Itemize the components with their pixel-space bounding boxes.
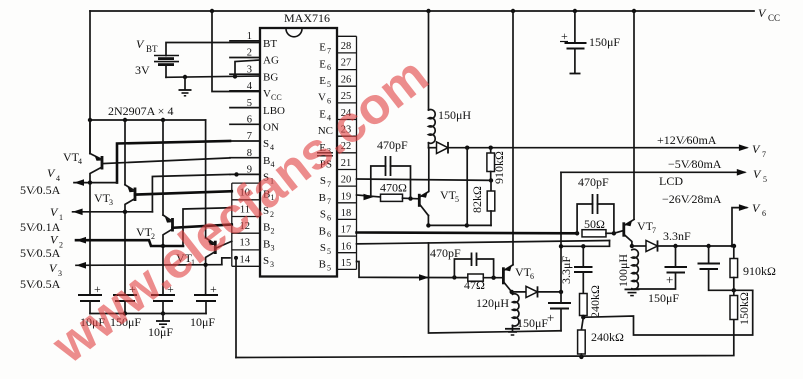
wire top Vcc rail [90,10,754,12]
svg-text:2: 2 [271,227,275,236]
svg-text:−5V∕80mA: −5V∕80mA [668,157,722,171]
node V5 label [668,157,767,184]
capacitor C12 150uF [517,292,571,331]
svg-text:S: S [263,138,269,150]
svg-text:5: 5 [327,247,331,256]
IC left pin stubs 1-9 [230,41,260,175]
resistor R6 150k [730,290,751,325]
svg-text:BT: BT [146,44,158,54]
svg-text:3: 3 [247,64,252,75]
svg-text:910kΩ: 910kΩ [743,264,776,278]
svg-text:6: 6 [762,209,766,218]
diode D3 [512,286,564,297]
svg-text:V: V [318,92,326,104]
svg-text:5V∕0.5A: 5V∕0.5A [20,246,61,260]
ground L2 [625,289,640,295]
capacitor C9 3.3nF [698,246,753,292]
svg-text:470pF: 470pF [430,246,461,260]
inductor L3 120uH [476,294,519,332]
svg-text:470Ω: 470Ω [380,181,407,195]
svg-text:47Ω: 47Ω [464,278,485,292]
svg-text:B: B [319,192,326,204]
svg-text:7: 7 [327,47,331,56]
pin names left inside [263,38,285,269]
svg-text:16: 16 [341,241,352,252]
wire S7 pin20 to 910k/82k node [357,178,494,182]
wire B4 pin8 to VT4 base [102,158,230,164]
capacitor C5 150uF top [560,9,620,74]
svg-text:7: 7 [327,180,331,189]
svg-text:S: S [320,242,326,254]
svg-text:19: 19 [341,191,352,202]
battery VBT 3V [135,37,260,77]
svg-text:14: 14 [240,254,251,265]
svg-text:26: 26 [341,74,352,85]
wire bottom rail [236,320,734,360]
svg-text:−26V∕28mA: −26V∕28mA [662,192,722,206]
pin numbers left [240,31,253,265]
svg-text:B: B [319,259,326,271]
svg-text:150μF: 150μF [517,316,548,330]
svg-text:ON: ON [263,122,279,134]
transistor VT5 [419,148,459,216]
capacitor C3 10uF [148,282,175,339]
svg-text:5: 5 [247,98,252,109]
svg-text:3: 3 [270,260,274,269]
svg-text:MAX716: MAX716 [284,11,330,25]
resistor R1 910k [487,148,506,184]
resistor R4 50ohm [582,217,623,237]
wire AG pin2 jog [235,60,260,76]
resistor R2 82k [470,180,495,225]
wire S1 pin9 [152,172,238,212]
svg-text:7: 7 [247,131,252,142]
svg-text:5V∕0.5A: 5V∕0.5A [20,277,61,291]
wire left rail [89,11,91,154]
capacitor C7 470pF bridge [577,175,614,233]
svg-text:V: V [263,88,271,100]
inductor L2 100uH [616,249,638,289]
svg-text:5: 5 [327,264,331,273]
svg-text:3V: 3V [135,63,150,77]
wire S3 pin14 to V3 row [222,258,230,265]
wire B7 pin19 with arrow [357,194,381,201]
pin numbers right [341,41,352,269]
wire -5V vertical [560,172,562,292]
svg-text:8: 8 [247,148,252,159]
capacitor C6 470pF bridge [371,138,411,199]
wire S2 pin11 [183,208,230,246]
svg-text:82kΩ: 82kΩ [470,186,484,213]
svg-text:3.3μF: 3.3μF [559,256,573,284]
svg-text:470pF: 470pF [377,138,408,152]
wire S5 pin16 line [357,241,610,249]
wire pin14 down to bottom rail [234,256,238,358]
transistor VT1 [176,120,215,295]
svg-text:S: S [263,255,269,267]
wire VT6 block bottom [429,243,562,333]
IC left pin boxes 10-14 [232,183,260,266]
svg-text:240kΩ: 240kΩ [591,330,624,344]
svg-text:27: 27 [341,58,352,69]
transistor VT3 [94,120,135,295]
watermark www.elecfans.com [40,45,438,374]
svg-text:B: B [319,225,326,237]
label LCD [659,174,683,188]
svg-text:1: 1 [247,31,252,42]
svg-text:150μF: 150μF [648,291,679,305]
svg-text:10μF: 10μF [190,315,215,329]
svg-text:7: 7 [327,197,331,206]
wire emitter feed line [88,118,206,122]
capacitor C4 10uF [190,282,218,329]
wire Vcc rail to VT6 vertical [511,9,515,265]
wire battery to BG pin3 [166,74,260,79]
svg-text:150μF: 150μF [589,35,620,49]
svg-text:5: 5 [327,80,331,89]
capacitor C10 3.3uF [559,246,593,293]
svg-text:120μH: 120μH [476,296,509,310]
wire +12V line [448,144,749,151]
svg-text:100μH: 100μH [616,254,630,287]
node Vcc label [758,6,780,23]
node V3 output [20,261,222,291]
wire S4 pin7 [117,141,230,183]
svg-text:LBO: LBO [263,105,285,117]
wire VT5 collector node [426,216,491,228]
svg-text:CC: CC [271,93,282,102]
IC right pin ladder 15-28 [337,36,357,269]
ground battery [179,77,192,96]
transistor VT4 [63,120,102,295]
transistor VT2 [136,120,173,295]
capacitor C8 150uF [634,246,687,305]
wire -5V line [561,169,747,176]
svg-text:4: 4 [247,81,253,92]
IC U1 MAX716 body [260,11,337,277]
wire V6 output [732,204,749,246]
svg-text:150kΩ: 150kΩ [737,292,751,325]
svg-text:E: E [319,58,326,70]
pin names right inside [317,42,333,273]
svg-text:3: 3 [271,243,275,252]
node V6 label [662,192,766,218]
wire 12V to collector vertical [466,148,468,226]
wire B3 pin13 to VT1 base [215,241,232,248]
svg-text:BG: BG [263,71,278,83]
ground capacitor row [156,314,170,328]
svg-text:+: + [210,282,217,296]
label 2N2907A x4 [108,104,173,118]
svg-text:2: 2 [247,48,252,59]
svg-text:5: 5 [455,195,459,204]
capacitor C11 470pF bridge [430,246,494,278]
svg-text:240kΩ: 240kΩ [588,285,602,318]
capacitor C2 150uF [110,282,141,329]
svg-text:10μF: 10μF [148,325,173,339]
ground L3 [505,329,520,335]
wire B2 pin12 to VT2 base [173,225,232,228]
wire B1 pin10 to VT3 base [135,191,232,194]
diode D1 [429,142,449,154]
wire B6 pin17 to 50ohm [357,231,580,235]
svg-text:15: 15 [341,258,352,269]
svg-text:6: 6 [530,272,534,281]
svg-text:18: 18 [341,208,352,219]
node V4 output [20,166,117,197]
wire Vcc rail to pin4 [210,9,260,92]
svg-text:+12V∕60mA: +12V∕60mA [657,133,717,147]
capacitor C1 10uF [78,282,105,329]
svg-text:S: S [320,209,326,221]
diode D2 [632,229,691,252]
svg-text:17: 17 [341,225,352,236]
svg-text:CC: CC [768,13,780,23]
transistor VT7 [624,219,656,248]
transistor VT6 [503,265,534,294]
node V2 output [20,233,183,261]
svg-text:E: E [319,42,326,54]
svg-text:B: B [263,238,270,250]
svg-text:4: 4 [56,174,60,183]
resistor R5 910k [730,246,776,290]
resistor R3 470ohm [380,181,419,202]
wire feedback route around 150k [583,290,752,335]
wire Vcc rail to VT7 vertical [632,9,636,219]
wire B5 pin15 route [357,262,468,281]
svg-text:150μH: 150μH [438,108,471,122]
wire VT7 output line [658,244,737,248]
svg-text:28: 28 [341,41,352,52]
svg-text:4: 4 [78,157,82,166]
node V7 label [657,133,766,159]
svg-text:910kΩ: 910kΩ [492,151,506,184]
svg-text:6: 6 [247,115,252,126]
svg-text:E: E [319,75,326,87]
svg-text:AG: AG [263,55,279,67]
resistor R7 240k [580,285,603,319]
svg-text:6: 6 [327,63,331,72]
node V1 output [20,205,152,234]
svg-text:470pF: 470pF [578,175,609,189]
resistor R9 47ohm [464,274,503,292]
wire capacitor bottoms [90,311,206,315]
svg-text:3.3nF: 3.3nF [663,229,691,243]
svg-text:3: 3 [109,198,113,207]
svg-text:20: 20 [341,175,352,186]
svg-text:LCD: LCD [659,174,683,188]
svg-text:7: 7 [762,150,766,159]
resistor R8 240k [578,317,624,357]
svg-text:50Ω: 50Ω [584,217,605,231]
svg-text:7: 7 [652,226,656,235]
svg-text:6: 6 [327,230,331,239]
inductor L1 150uH [426,9,471,148]
svg-text:5: 5 [763,175,767,184]
svg-text:5V∕0.5A: 5V∕0.5A [20,183,61,197]
svg-text:2N2907A × 4: 2N2907A × 4 [108,104,173,118]
svg-text:6: 6 [327,214,331,223]
svg-text:BT: BT [263,38,277,50]
svg-text:+: + [666,272,673,287]
